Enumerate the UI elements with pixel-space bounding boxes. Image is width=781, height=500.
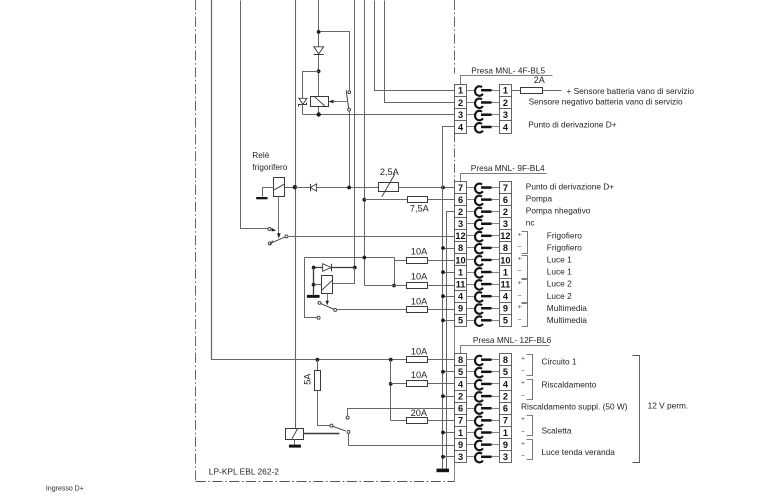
polarity bracket 9F pins 10/1 [522, 256, 528, 279]
svg-text:Multimedia: Multimedia [547, 303, 588, 313]
svg-text:Presa MNL- 4F-BL5: Presa MNL- 4F-BL5 [471, 66, 545, 76]
connector MNL-9F-BL4 pin 8 contact symbol [467, 244, 500, 254]
wire branch to zener [303, 72, 319, 99]
svg-text:Pompa: Pompa [526, 194, 553, 204]
wire top horizontal y=31.9 [319, 32, 350, 91]
wire zener to bottom [302, 104, 304, 114]
relay K2 switch feed contact [268, 228, 276, 232]
connector MNL-12F-BL6 pin 7 contact symbol [467, 416, 500, 426]
svg-text:2: 2 [458, 98, 463, 108]
svg-text:10A: 10A [411, 271, 428, 281]
wire fuse 2,5A to 9F pin7 [398, 187, 454, 189]
solenoid actuator [286, 429, 304, 440]
connector MNL-9F-BL4 pin 4 contact symbol [467, 292, 500, 302]
svg-text:5: 5 [458, 367, 463, 377]
switch S1 upper throw contact [346, 416, 349, 419]
svg-text:LP-KPL EBL 262-2: LP-KPL EBL 262-2 [209, 466, 279, 476]
polarity bracket 12F pins 7/1 [527, 416, 533, 436]
svg-text:Riscaldamento suppl. (50 W): Riscaldamento suppl. (50 W) [521, 402, 628, 412]
connector MNL-9F-BL4 pin 11 contact symbol [467, 280, 500, 290]
node junction (318.6,71.3) [317, 69, 321, 73]
svg-text:1: 1 [458, 428, 463, 438]
connector MNL-4F-BL5 pin 4 contact symbol [467, 123, 500, 133]
svg-text:2,5A: 2,5A [380, 167, 400, 177]
svg-text:nc: nc [526, 218, 535, 228]
svg-text:1: 1 [503, 267, 508, 277]
svg-text:7: 7 [503, 183, 508, 193]
svg-text:8: 8 [503, 243, 508, 253]
relay K3 normally-open contact [317, 316, 320, 319]
leader line for Presa MNL- 12F-BL6 [461, 346, 550, 354]
enclosure border right between 4F and 9F [454, 133, 456, 181]
svg-text:10A: 10A [411, 297, 428, 307]
wire solenoid to ground [294, 439, 296, 445]
wire bus to diode [295, 187, 310, 189]
connector MNL-4F-BL5 pin 3 contact symbol [467, 111, 500, 121]
svg-text:−: − [521, 392, 525, 399]
ground symbol for K2 [256, 197, 267, 199]
enclosure border right below 12F [454, 463, 456, 482]
relay K2 actuator arrow [277, 197, 281, 239]
wire K3 diode row y=267.5 [314, 267, 323, 269]
svg-text:Luce 2: Luce 2 [547, 279, 572, 289]
connector MNL-9F-BL4 pin 5 contact symbol [467, 316, 500, 326]
wire fuse 2A out [543, 90, 562, 92]
wire vertical x=394 [394, 260, 396, 285]
svg-text:1: 1 [458, 267, 463, 277]
polarity bracket 12F pins 9/3 [527, 440, 533, 460]
enclosure border bottom (dash-dot) [196, 481, 455, 483]
diode V3 [310, 184, 316, 191]
svg-text:Scaletta: Scaletta [542, 426, 572, 436]
node junction (364.3,199.7) [362, 198, 366, 202]
wire vertical bus x=295 [295, 0, 297, 428]
node junction (318.7,114.5) [317, 112, 321, 116]
svg-text:2: 2 [458, 207, 463, 217]
wire fuse 20A to 12F pin7 [428, 420, 455, 422]
node junction (354.8,267.5) [353, 266, 357, 270]
svg-text:5: 5 [458, 316, 463, 326]
fuse 2,5A [379, 174, 399, 197]
svg-text:Pompa nhegativo: Pompa nhegativo [526, 206, 591, 216]
wire bend to 20A [391, 420, 407, 422]
relay K1 switch contact upper [348, 91, 351, 94]
svg-text:3: 3 [503, 110, 508, 120]
relay K3 coil [322, 276, 333, 294]
fuse 10A Luce 1 [407, 258, 428, 264]
polarity bracket 12F pins 8/5 [527, 355, 533, 376]
svg-text:−: − [521, 453, 525, 460]
wire vertical x=385 to 4F pin2 [385, 1, 455, 103]
node junction (313.6,284.6) [312, 283, 316, 287]
wire 5A fuse to switch [318, 391, 331, 426]
svg-text:20A: 20A [411, 408, 428, 418]
svg-text:4: 4 [458, 122, 464, 132]
relay K3 ground branch [313, 268, 315, 295]
svg-text:3: 3 [503, 219, 508, 229]
connector MNL-4F-BL5 pin 2 contact symbol [467, 99, 500, 109]
wire diode to fuse 2,5A [317, 187, 379, 189]
svg-text:2A: 2A [534, 75, 545, 85]
wire K3 left loop [305, 258, 318, 318]
fuse 10A Luce 2 [407, 283, 428, 289]
svg-text:+: + [521, 440, 525, 447]
node junction (318.6,31.9) [317, 30, 321, 34]
connector MNL-9F-BL4 inner pin column [455, 182, 467, 327]
connector MNL-12F-BL6 pin 8 contact symbol [467, 356, 500, 366]
fuse 2A [521, 88, 543, 94]
svg-text:3: 3 [458, 110, 463, 120]
wire vertical x=374.2 to 4F pin1 [375, 1, 455, 91]
svg-text:Frigofiero: Frigofiero [547, 230, 582, 240]
connector MNL-12F-BL6 pin 4 contact symbol [467, 380, 500, 390]
relay K1 switch blade [346, 90, 349, 108]
svg-text:7: 7 [458, 416, 463, 426]
solenoid actuating rod [304, 433, 340, 435]
relay K2 coil (Rele frigorifero) [274, 178, 285, 197]
svg-text:9: 9 [503, 304, 508, 314]
node junction (349.1,187.5) [347, 186, 351, 190]
wire fuse 7,5A to 9F pin6 [427, 199, 455, 201]
svg-text:12: 12 [455, 231, 465, 241]
wire vertical x=390.7 [390, 360, 392, 421]
node junction (364.4,257.5) [363, 256, 367, 260]
svg-text:5: 5 [503, 367, 508, 377]
node junction (443,432.5) [441, 431, 445, 435]
relay K1 switch contact lower [348, 108, 351, 111]
relay K3 actuator arrow [326, 294, 329, 306]
fuse 10A Circuito1 [407, 357, 428, 363]
node junction (443,371.8) [441, 370, 445, 374]
fuse 20A [407, 418, 428, 424]
wire x=364.3 bend to 10A Luce2 [365, 285, 407, 287]
wire ground bus x=443 [443, 127, 455, 469]
connector MNL-4F-BL5 outer pin column [499, 85, 511, 134]
svg-text:+ Sensore batteria vano di ser: + Sensore batteria vano di servizio [567, 86, 695, 96]
wire stub ground bus to 9F pin1 [443, 272, 455, 274]
svg-text:Luce tenda veranda: Luce tenda veranda [542, 447, 616, 457]
svg-text:2: 2 [503, 391, 508, 401]
fuse 10A Riscaldamento [407, 381, 428, 387]
connector MNL-9F-BL4 pin 1 contact symbol [467, 268, 500, 277]
connector MNL-9F-BL4 pin 12 contact symbol [467, 232, 500, 242]
wire to 5A fuse [317, 360, 319, 371]
node junction (443,272.1) [441, 270, 445, 274]
wire vertical x=364.3 [364, 0, 366, 286]
node junction (390.7,359.7) [389, 358, 393, 362]
svg-text:9: 9 [458, 440, 463, 450]
switch S1 lower throw contact [347, 430, 350, 433]
zener diode V2 [299, 98, 307, 106]
svg-text:10A: 10A [411, 346, 428, 356]
wire 4F pin1 to fuse 2A [511, 90, 521, 92]
wire vertical bus x=240 [241, 1, 268, 229]
node junction (443,396.1) [441, 394, 445, 398]
svg-text:−: − [518, 292, 522, 299]
svg-text:9: 9 [503, 440, 508, 450]
wire stub ground bus to 9F pin8 [443, 248, 455, 250]
svg-text:Punto di derivazione D+: Punto di derivazione D+ [528, 119, 616, 129]
wire coil right to bus [285, 187, 296, 189]
wire coil left to ground [263, 188, 274, 197]
wire 12V perm feed y=359.7 [211, 359, 407, 361]
svg-text:−: − [518, 244, 522, 251]
svg-text:1: 1 [503, 428, 508, 438]
wire switch lower to D+ rail [349, 111, 351, 187]
polarity bracket 9F pins 9/5 [522, 304, 528, 327]
wire fuse to 9F pin10 [428, 260, 455, 262]
svg-text:6: 6 [458, 195, 463, 205]
diode V1 on x=318.6 [314, 47, 324, 55]
svg-text:3: 3 [458, 452, 463, 462]
svg-text:10: 10 [500, 255, 510, 265]
relay K2 switch pivot contact [268, 242, 271, 245]
connector MNL-9F-BL4 pin 9 contact symbol [467, 304, 500, 314]
svg-text:12: 12 [500, 231, 510, 241]
connector MNL-12F-BL6 pin 6 contact symbol [467, 404, 500, 414]
connector MNL-9F-BL4 pin 2 contact symbol [467, 208, 500, 217]
wire x=354.6 bend to coil right [333, 268, 355, 284]
connector MNL-12F-BL6 pin 2 contact symbol [467, 392, 500, 402]
svg-text:2: 2 [503, 207, 508, 217]
fuse 7,5A [408, 197, 428, 203]
svg-text:Presa MNL- 12F-BL6: Presa MNL- 12F-BL6 [473, 335, 552, 345]
wire fuse to 12F pin4 [428, 383, 455, 385]
svg-text:6: 6 [503, 404, 508, 414]
svg-text:Luce 2: Luce 2 [547, 291, 572, 301]
connector MNL-12F-BL6 pin 5 contact symbol [467, 368, 500, 378]
svg-text:3: 3 [503, 452, 508, 462]
relay K3 switch blade [321, 304, 334, 310]
svg-text:8: 8 [458, 243, 463, 253]
svg-text:3: 3 [458, 219, 463, 229]
svg-text:Luce 1: Luce 1 [547, 255, 572, 265]
wire stub ground bus to 12F pin3 [443, 456, 455, 458]
relay K2 switch blade [270, 237, 285, 245]
svg-text:4: 4 [503, 291, 509, 301]
fuse 10A Multimedia [407, 307, 428, 313]
connector MNL-4F-BL5 pin 1 contact symbol [467, 86, 500, 96]
svg-text:Relè: Relè [252, 150, 269, 160]
svg-text:Frigofiero: Frigofiero [547, 242, 582, 252]
wire vertical bus x=211 [211, 0, 213, 360]
node junction (317.4,359.7) [316, 358, 320, 362]
svg-text:Sensore negativo batteria vano: Sensore negativo batteria vano di serviz… [529, 97, 683, 107]
enclosure border right between 9F and 12F [454, 326, 456, 353]
svg-text:10A: 10A [411, 370, 428, 380]
switch S1 common contact [330, 424, 333, 427]
node junction (443,248.0) [441, 246, 445, 250]
wire to 10A Riscaldamento [391, 383, 407, 385]
svg-text:7,5A: 7,5A [410, 203, 430, 213]
svg-text:8: 8 [503, 355, 508, 365]
svg-text:−: − [518, 268, 522, 275]
node junction (295.4,187.2) [293, 185, 297, 189]
svg-text:−: − [521, 429, 525, 436]
wire diode V4 to x=354.6 [332, 267, 355, 269]
diode V4 [323, 264, 332, 272]
connector MNL-12F-BL6 inner pin column [455, 354, 467, 463]
svg-text:Punto di derivazione D+: Punto di derivazione D+ [526, 182, 614, 192]
svg-text:Multimedia: Multimedia [547, 315, 588, 325]
svg-text:7: 7 [458, 183, 463, 193]
connector MNL-12F-BL6 outer pin column [499, 354, 511, 463]
svg-text:Presa MNL- 9F-BL4: Presa MNL- 9F-BL4 [471, 163, 545, 173]
svg-text:+: + [521, 380, 525, 387]
wire 9F pin2 down to ground [447, 212, 455, 469]
svg-text:−: − [521, 368, 525, 375]
wire upper throw to 12F pin6 [348, 409, 455, 417]
bracket 12 V perm. [633, 356, 640, 463]
ground symbol solenoid [289, 445, 301, 448]
svg-text:frigorifero: frigorifero [252, 162, 287, 172]
wire K2 output to 9F pin12 [288, 236, 455, 238]
wire vertical x=318.6 (D+ to relay K1) [318, 0, 320, 115]
svg-text:+: + [521, 355, 525, 362]
polarity bracket 9F pins 11/4 [522, 280, 528, 303]
ground symbol main [437, 469, 450, 473]
svg-text:Riscaldamento: Riscaldamento [542, 380, 597, 390]
fuse 5A [315, 371, 321, 391]
svg-text:6: 6 [503, 195, 508, 205]
svg-text:2: 2 [503, 98, 508, 108]
node junction (394,285.5) [392, 284, 396, 288]
connector MNL-9F-BL4 pin 3 contact symbol [467, 220, 500, 229]
svg-text:+: + [521, 416, 525, 423]
wire ground node to coil left [314, 284, 322, 286]
svg-text:+: + [518, 256, 522, 263]
svg-text:1: 1 [458, 86, 463, 96]
wire fuse to 12F pin8 [428, 359, 455, 361]
connector MNL-9F-BL4 outer pin column [499, 182, 511, 327]
connector MNL-12F-BL6 pin 9 contact symbol [467, 441, 500, 451]
leader line for Presa MNL- 4F-BL5 [461, 76, 553, 85]
connector MNL-12F-BL6 pin 1 contact symbol [467, 429, 500, 439]
switch S1 blade [333, 426, 346, 431]
wire stub ground bus to 9F pin4 [443, 296, 455, 298]
svg-text:+: + [518, 304, 522, 311]
connector MNL-9F-BL4 pin 10 contact symbol [467, 256, 500, 266]
svg-text:Luce 1: Luce 1 [547, 267, 572, 277]
wire lower throw to 12F pin9 [349, 434, 455, 446]
node junction (443,187.5) [441, 186, 445, 190]
svg-text:4: 4 [458, 291, 464, 301]
wire stub ground bus to 12F pin5 [443, 371, 455, 373]
relay K3 switch throw contact [318, 301, 321, 304]
polarity bracket 12F pins 4/2 [527, 380, 533, 400]
node junction (313.6,267.5) [312, 266, 316, 270]
svg-text:5: 5 [503, 316, 508, 326]
connector MNL-4F-BL5 inner pin column [455, 85, 467, 134]
svg-text:9: 9 [458, 304, 463, 314]
wire relay K1 bottom y=114.5 [303, 114, 455, 116]
svg-text:8: 8 [458, 355, 463, 365]
ground symbol for K3 [307, 295, 320, 298]
wire to fuse 7,5A [364, 199, 407, 201]
svg-text:10A: 10A [411, 246, 428, 256]
svg-text:6: 6 [458, 404, 463, 414]
node junction (443,456.8) [441, 455, 445, 459]
svg-text:5A: 5A [303, 373, 313, 385]
svg-text:Ingresso D+: Ingresso D+ [46, 485, 84, 492]
svg-text:−: − [518, 317, 522, 324]
svg-text:2: 2 [458, 391, 463, 401]
svg-text:4: 4 [503, 122, 509, 132]
connector MNL-9F-BL4 pin 7 contact symbol [467, 184, 500, 194]
wire K3 top feed y=257.5 [305, 257, 395, 259]
svg-text:+: + [518, 280, 522, 287]
svg-text:10: 10 [455, 255, 465, 265]
relay K1 actuator arrow [328, 100, 347, 103]
node junction (443,320.4) [441, 319, 445, 323]
svg-text:1: 1 [503, 86, 508, 96]
relay K2 switch output contact [285, 235, 288, 238]
wire jog to 10A Luce1 [395, 258, 407, 261]
wire vertical x=354.6 [354, 0, 356, 283]
relay K3 switch common contact [334, 308, 337, 311]
svg-text:+: + [518, 232, 522, 239]
svg-text:11: 11 [456, 279, 466, 289]
wire K3 common to fuse 10A [337, 309, 407, 311]
svg-text:7: 7 [503, 416, 508, 426]
wire fuse to 9F pin11 [428, 285, 455, 287]
node junction (443,296.2) [441, 294, 445, 298]
svg-text:11: 11 [501, 279, 511, 289]
wire stub ground bus to 9F pin5 [443, 320, 455, 322]
leader line for Presa MNL- 9F-BL4 [461, 174, 547, 182]
enclosure border left (dash-dot) [195, 0, 197, 482]
polarity bracket 9F pins 12/8 [522, 232, 528, 254]
connector MNL-12F-BL6 pin 3 contact symbol [467, 453, 500, 463]
svg-text:12 V perm.: 12 V perm. [648, 400, 689, 410]
wire stub ground bus to 12F pin2 [443, 396, 455, 398]
enclosure border right top (dash-dot) [454, 0, 456, 74]
relay K1 coil [311, 96, 329, 106]
wire stub ground bus to 12F pin1 [443, 432, 455, 434]
connector MNL-9F-BL4 pin 6 contact symbol [467, 196, 500, 206]
svg-text:Circuito 1: Circuito 1 [542, 357, 577, 367]
node junction (390.7,383.9) [389, 382, 393, 386]
svg-text:4: 4 [503, 379, 509, 389]
svg-text:4: 4 [458, 379, 464, 389]
wire fuse to 9F pin9 [428, 309, 455, 311]
